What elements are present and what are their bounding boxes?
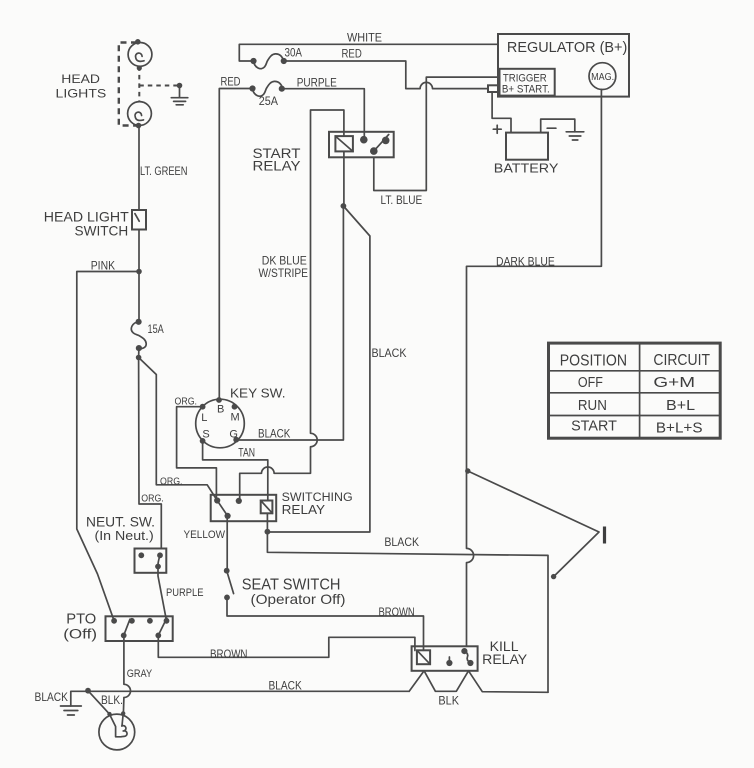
svg-text:PURPLE: PURPLE	[166, 587, 204, 599]
wire LT. GREEN: lower bulb to headlight switch	[138, 126, 140, 211]
svg-text:HEAD: HEAD	[61, 72, 100, 86]
wire: battery + to trigger tab	[492, 92, 511, 133]
wire TAN: key S down to switching relay coil	[203, 441, 268, 501]
wire BLK.: tap to engine points	[88, 691, 110, 714]
wire: fuse to branch node	[138, 348, 140, 357]
ground (headlights)	[171, 86, 188, 105]
wire BLACK: junction to key switch G	[236, 206, 343, 440]
svg-text:(Operator Off): (Operator Off)	[251, 592, 346, 607]
kill relay fixed contact	[446, 657, 452, 666]
wire BLK: kill relay frame legs	[409, 671, 548, 693]
svg-text:G: G	[229, 428, 238, 440]
svg-text:RUN: RUN	[578, 397, 607, 414]
wire DK BLUE W/STRIPE: coil top to switching relay (hops black, tan)	[240, 110, 344, 501]
switching relay armature	[217, 501, 231, 520]
seat switch contact (bottom)	[224, 595, 230, 601]
svg-text:DARK BLUE: DARK BLUE	[496, 255, 555, 269]
wire (dashed) to headlight ground	[139, 85, 179, 87]
wire: battery - to ground	[541, 119, 575, 133]
svg-text:BATTERY: BATTERY	[494, 161, 559, 176]
svg-text:YELLOW: YELLOW	[184, 529, 226, 541]
svg-text:LT. BLUE: LT. BLUE	[381, 193, 423, 207]
svg-text:CIRCUIT: CIRCUIT	[653, 352, 710, 369]
svg-text:B+L: B+L	[666, 397, 695, 414]
svg-text:S: S	[202, 428, 209, 440]
magneto terminal MAG.	[589, 63, 616, 90]
svg-text:L: L	[201, 412, 207, 424]
node: bottom of lower bulb	[136, 123, 142, 129]
label KILL RELAY	[482, 639, 527, 667]
start relay fixed contact	[360, 136, 368, 144]
key terminal letters	[201, 404, 239, 441]
kill relay box	[412, 646, 478, 671]
pointer to interlock wires "I"	[465, 468, 604, 579]
svg-text:PINK: PINK	[91, 259, 115, 273]
wire: coil bottom to junction	[343, 151, 345, 206]
wire GRAY: PTO to engine (hops black)	[123, 635, 130, 713]
svg-text:(Off): (Off)	[63, 627, 97, 642]
switching relay box	[211, 495, 277, 521]
ground (engine)	[61, 706, 82, 715]
svg-text:BLACK: BLACK	[35, 690, 69, 704]
svg-text:B+ START.: B+ START.	[502, 84, 550, 96]
regulator box	[498, 34, 629, 97]
key switch terminal S	[200, 438, 206, 444]
label SEAT SWITCH (Operator Off)	[242, 577, 346, 607]
label START RELAY	[253, 146, 302, 174]
wire DARK BLUE: MAG down to kill relay (hops black)	[467, 90, 602, 647]
headlight switch	[132, 210, 146, 230]
node at ground tap	[177, 83, 183, 89]
wire WHITE: top feed to regulator	[239, 44, 498, 61]
lamp DS1 (upper headlight bulb)	[128, 43, 152, 67]
svg-text:RELAY: RELAY	[482, 652, 527, 667]
key switch terminal B	[216, 397, 222, 403]
svg-text:PURPLE: PURPLE	[297, 77, 337, 89]
svg-text:15A: 15A	[148, 322, 164, 336]
wire: coil bottom to junction	[266, 513, 268, 531]
kill relay armature	[461, 648, 473, 666]
wire BLACK: engine ground run	[71, 691, 409, 706]
wire: seat switch to kill relay coil	[227, 597, 424, 650]
label SWITCHING RELAY	[282, 490, 353, 517]
svg-text:BLK: BLK	[438, 696, 459, 708]
wire PINK: across and down to PTO	[77, 272, 139, 621]
key switch body	[196, 399, 245, 448]
PTO terminals (bottom row)	[121, 633, 127, 639]
svg-text:30A: 30A	[285, 48, 303, 60]
battery - sign	[547, 127, 556, 129]
kill relay coil	[417, 650, 430, 664]
wire: red feed through 25A fuse down to key switch B	[219, 89, 252, 401]
lamp DS2 (lower headlight bulb)	[128, 102, 152, 126]
wire ORG.: fuse branch down to neutral switch	[139, 358, 162, 549]
wire PURPLE: neutral switch to PTO	[158, 567, 167, 621]
neutral switch arm	[158, 555, 160, 566]
node: switching coil bottom junction	[265, 529, 271, 535]
seat switch arm (open)	[227, 571, 234, 594]
svg-text:BROWN: BROWN	[379, 605, 415, 619]
wire ORG.: key L to switching relay	[177, 407, 217, 501]
svg-text:TAN: TAN	[238, 448, 255, 460]
svg-text:BLK.: BLK.	[101, 695, 123, 707]
switching relay contact (org)	[214, 497, 220, 503]
svg-text:ORG.: ORG.	[160, 475, 183, 487]
PTO switch arms	[124, 619, 130, 635]
wire BROWN: PTO to kill relay	[158, 635, 415, 657]
svg-text:25A: 25A	[259, 96, 279, 108]
svg-text:ORG.: ORG.	[141, 492, 164, 504]
fuse F2 25A	[249, 81, 285, 96]
terminal tab (B+ input)	[488, 85, 499, 92]
headlight enclosure (dashed box)	[119, 43, 137, 126]
svg-text:LIGHTS: LIGHTS	[56, 87, 107, 101]
svg-text:BROWN: BROWN	[210, 647, 248, 661]
svg-text:M: M	[231, 412, 240, 424]
svg-text:BLACK: BLACK	[258, 427, 290, 441]
wire RED: fuse to regulator B+ tab (hops trigger wire)	[284, 61, 488, 89]
fuse F3 15A (vertical)	[131, 319, 146, 352]
key switch terminal L	[200, 404, 206, 410]
trigger box	[500, 69, 555, 96]
battery + sign	[493, 125, 501, 133]
fuse F1 30A	[250, 54, 287, 69]
svg-text:G+M: G+M	[653, 374, 695, 391]
switching relay coil	[261, 501, 273, 514]
label HEAD LIGHT SWITCH	[44, 210, 130, 239]
node: start relay coil bottom junction	[341, 203, 347, 209]
svg-text:HEAD LIGHT: HEAD LIGHT	[44, 210, 130, 225]
label DK BLUE W/STRIPE	[259, 254, 309, 281]
svg-text:W/STRIPE: W/STRIPE	[259, 266, 309, 280]
svg-text:BLACK: BLACK	[269, 679, 302, 693]
svg-text:GRAY: GRAY	[127, 668, 152, 680]
ground (battery)	[566, 132, 584, 140]
svg-text:PTO: PTO	[66, 612, 96, 628]
wire PURPLE: fuse to start relay contact	[282, 89, 365, 140]
key switch terminal G	[233, 437, 239, 443]
svg-text:SWITCHING: SWITCHING	[282, 490, 353, 504]
svg-text:B+L+S: B+L+S	[656, 420, 703, 437]
key position table	[549, 343, 721, 438]
svg-text:ORG.: ORG.	[175, 396, 198, 408]
PTO terminals (top row)	[111, 618, 117, 624]
svg-text:BLACK: BLACK	[372, 346, 407, 360]
svg-text:RELAY: RELAY	[282, 503, 326, 517]
svg-text:SWITCH: SWITCH	[75, 224, 129, 239]
svg-text:WHITE: WHITE	[347, 33, 382, 45]
label HEAD LIGHTS	[56, 72, 107, 101]
svg-text:RELAY: RELAY	[253, 159, 301, 174]
svg-text:MAG.: MAG.	[591, 72, 614, 83]
switching relay contact (dk blue)	[236, 498, 242, 504]
start relay armature	[370, 135, 390, 155]
wire BLACK: junction down to switching relay coil	[267, 206, 370, 532]
battery	[506, 133, 548, 160]
neutral switch contacts	[138, 552, 144, 558]
node: pink tap	[136, 269, 142, 275]
svg-text:POSITION: POSITION	[560, 353, 627, 370]
label NEUT. SW. (In Neut.)	[86, 515, 155, 543]
wire BLACK: junction to kill relay side	[267, 532, 548, 693]
label PTO (Off)	[63, 612, 97, 642]
neutral switch box	[135, 549, 167, 573]
svg-text:START: START	[571, 418, 617, 435]
svg-text:RED: RED	[342, 49, 362, 61]
svg-text:LT. GREEN: LT. GREEN	[140, 166, 188, 178]
wire ORG.: fuse branch to switching relay contact	[139, 358, 218, 501]
svg-text:BLACK: BLACK	[384, 535, 419, 549]
ignition points and coil inside engine	[110, 713, 128, 736]
wire LT. BLUE: start relay armature to trigger	[374, 77, 500, 190]
wire (dashed) between bulbs	[138, 66, 140, 101]
node between bulbs	[137, 65, 142, 70]
node: orange branch	[136, 355, 142, 361]
key switch terminal M	[232, 404, 238, 410]
svg-text:REGULATOR (B+): REGULATOR (B+)	[507, 39, 627, 56]
start relay box	[329, 132, 394, 158]
wire: switch down to pink junction and 15A fuse	[138, 230, 140, 322]
svg-text:OFF: OFF	[578, 374, 603, 391]
svg-text:B: B	[217, 404, 224, 416]
start relay coil	[335, 136, 353, 151]
node: top of upper bulb	[135, 39, 141, 45]
svg-text:(In Neut.): (In Neut.)	[95, 528, 154, 543]
node: black to engine tap	[85, 688, 91, 694]
svg-text:RED: RED	[221, 77, 241, 89]
label TRIGGER B+ START.	[502, 72, 550, 95]
engine / magneto	[99, 714, 135, 750]
wire YELLOW: armature down to seat switch	[226, 516, 228, 571]
svg-text:KEY SW.: KEY SW.	[230, 387, 286, 401]
seat switch contact (top)	[224, 568, 230, 574]
PTO switch box	[106, 616, 173, 641]
svg-text:TRIGGER: TRIGGER	[503, 72, 547, 84]
